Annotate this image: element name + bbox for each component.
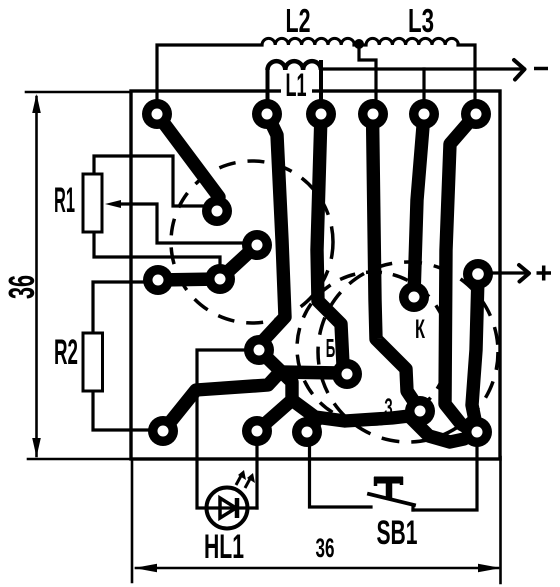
svg-text:R1: R1	[54, 181, 75, 220]
svg-text:К: К	[415, 314, 425, 344]
svg-text:36: 36	[316, 533, 335, 563]
svg-text:HL1: HL1	[204, 528, 244, 566]
svg-text:L2: L2	[286, 2, 311, 39]
svg-text:L1: L1	[286, 67, 307, 103]
svg-text:R2: R2	[54, 333, 78, 372]
svg-text:SB1: SB1	[377, 514, 418, 552]
svg-text:36: 36	[1, 275, 42, 299]
svg-text:Б: Б	[326, 333, 336, 363]
svg-text:L3: L3	[408, 2, 434, 39]
svg-text:З: З	[384, 394, 393, 422]
